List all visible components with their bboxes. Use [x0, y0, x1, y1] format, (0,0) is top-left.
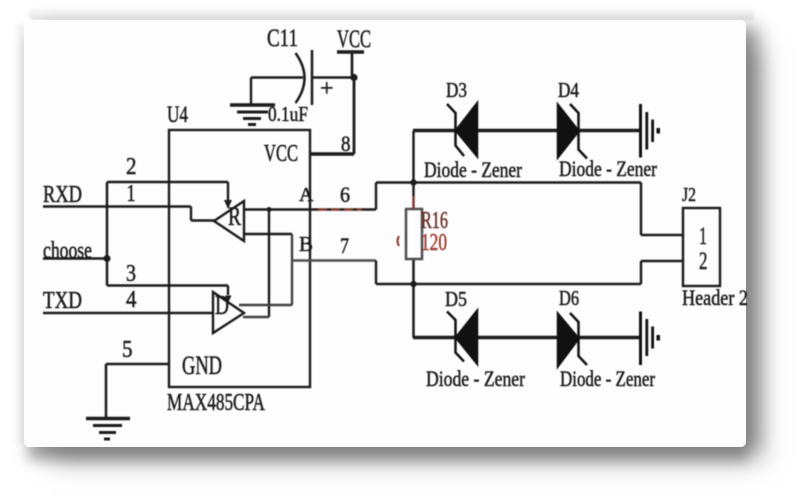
- svg-text:4: 4: [126, 287, 137, 313]
- svg-text:VCC: VCC: [264, 141, 298, 167]
- svg-text:Diode - Zener: Diode - Zener: [426, 366, 526, 391]
- svg-text:VCC: VCC: [337, 26, 371, 53]
- svg-text:2: 2: [699, 248, 708, 275]
- svg-text:5: 5: [122, 337, 133, 363]
- svg-text:3: 3: [126, 261, 136, 287]
- svg-text:MAX485CPA: MAX485CPA: [167, 390, 265, 416]
- svg-text:1: 1: [127, 181, 136, 207]
- svg-text:0.1uF: 0.1uF: [268, 102, 308, 126]
- svg-text:RXD: RXD: [43, 182, 82, 208]
- svg-text:J2: J2: [682, 184, 696, 206]
- svg-text:8: 8: [341, 131, 351, 156]
- svg-text:Diode - Zener: Diode - Zener: [424, 157, 523, 182]
- svg-text:D6: D6: [559, 286, 579, 310]
- svg-text:Diode - Zener: Diode - Zener: [559, 156, 658, 181]
- svg-text:choose: choose: [43, 238, 92, 264]
- svg-text:A: A: [299, 184, 314, 206]
- svg-text:TXD: TXD: [43, 288, 82, 314]
- svg-text:GND: GND: [182, 351, 222, 380]
- svg-text:D5: D5: [445, 287, 467, 311]
- svg-text:Header 2: Header 2: [682, 285, 748, 310]
- svg-text:R: R: [228, 202, 241, 231]
- svg-text:D3: D3: [446, 78, 467, 102]
- svg-text:120: 120: [421, 230, 447, 256]
- svg-text:B: B: [299, 232, 313, 256]
- svg-text:1: 1: [699, 223, 707, 250]
- svg-text:+: +: [320, 76, 334, 102]
- svg-text:U4: U4: [167, 102, 188, 127]
- svg-text:2: 2: [126, 154, 137, 180]
- svg-text:7: 7: [340, 233, 349, 258]
- svg-text:C11: C11: [267, 25, 298, 52]
- svg-text:D: D: [215, 290, 229, 320]
- svg-text:6: 6: [340, 182, 350, 207]
- svg-text:D4: D4: [558, 78, 579, 102]
- svg-text:Diode - Zener: Diode - Zener: [560, 366, 656, 391]
